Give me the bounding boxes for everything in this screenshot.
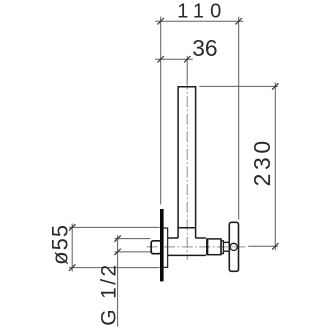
G 1/2 connection nut <box>151 241 161 254</box>
dimension line 110 (horizontal, top) <box>155 20 243 22</box>
flange ring <box>221 241 223 254</box>
dimension line 36 (horizontal) <box>155 58 193 60</box>
tick marks of dimension 36 <box>158 56 191 62</box>
centerline dash through hub <box>231 246 237 248</box>
dimension line ø55 (vertical, left) <box>71 224 73 272</box>
tick marks of dimension G 1/2 <box>114 235 120 255</box>
vertical centerline of riser tube <box>186 79 188 261</box>
handle stem bottom line <box>223 250 230 252</box>
extension line at thread bottom (G 1/2) <box>115 251 151 253</box>
handle hub circle <box>230 243 237 250</box>
extension line from valve axis to 230 dimension <box>248 245 278 247</box>
horizontal centerline of valve axis <box>147 246 248 248</box>
tick marks of dimension 230 <box>272 83 278 249</box>
svg-text:ø55: ø55 <box>47 225 72 265</box>
dimension line 230 (vertical, right) <box>274 83 276 251</box>
svg-text:G 1/2: G 1/2 <box>97 265 120 326</box>
valve body top edge, left segment <box>168 237 179 239</box>
extension line at thread top (G 1/2) <box>115 238 151 240</box>
cross handle (side view) <box>229 222 238 271</box>
svg-text:110: 110 <box>177 1 221 23</box>
valve body top edge, right segment <box>195 237 206 239</box>
extension line from tube top to 230 dimension <box>199 85 278 87</box>
extension line at rosette top (ø55) <box>69 226 160 228</box>
valve bonnet <box>207 239 221 255</box>
handle stem top line <box>223 241 230 243</box>
svg-text:36: 36 <box>192 35 217 61</box>
valve body bottom edge <box>168 254 206 256</box>
extension line at handle outer edge (right end of 110) <box>238 17 240 220</box>
svg-text:230: 230 <box>249 141 275 187</box>
leader line G 1/2 (vertical) <box>117 235 119 326</box>
wall plate (thick wall section line) <box>160 209 164 281</box>
valve body right separation line <box>206 239 208 255</box>
tick marks of dimension ø55 <box>69 224 75 271</box>
tube socket nut top edge <box>178 227 196 229</box>
extension line at rosette bottom (ø55) <box>69 267 160 269</box>
tick marks of dimension 110 <box>158 18 242 24</box>
extension line at wall face (left, shared by 110 and 36) <box>160 17 162 205</box>
riser tube outline <box>178 87 196 238</box>
wall rosette side profile <box>163 228 167 267</box>
extension line at tube axis (right end of 36) <box>186 56 188 84</box>
